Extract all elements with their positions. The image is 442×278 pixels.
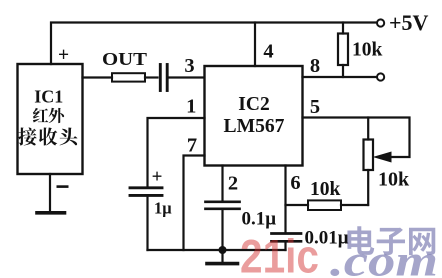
svg-text:4: 4: [263, 41, 273, 63]
wire bottom ground rail: [148, 249, 286, 251]
svg-text:8: 8: [310, 55, 320, 77]
svg-text:IC2: IC2: [238, 94, 269, 115]
svg-text:3: 3: [184, 55, 194, 77]
wire resistor to capacitor: [145, 76, 158, 78]
svg-text:10k: 10k: [378, 169, 410, 191]
wire pin1: [148, 118, 205, 187]
svg-text:0.1μ: 0.1μ: [242, 209, 277, 230]
svg-text:+: +: [152, 167, 163, 188]
wire pin5 to wiper: [303, 118, 410, 158]
wire C2 bottom stub: [221, 210, 223, 250]
potentiometer RP 10k body: [364, 118, 374, 206]
capacitor C1 1u electrolytic plates: [130, 188, 162, 196]
svg-text:10k: 10k: [310, 179, 341, 200]
capacitor C2 0.1u plates: [206, 202, 240, 209]
node junction dot ground: [219, 246, 227, 254]
terminal +5V (open circle): [377, 19, 384, 26]
svg-text:OUT: OUT: [102, 49, 147, 69]
svg-text:IC1: IC1: [34, 87, 63, 107]
wire pin6 stub down: [284, 166, 286, 233]
ground symbol IC1: [37, 211, 65, 215]
wire +5V top rail: [51, 23, 377, 65]
resistor OUT series: [112, 73, 145, 81]
label minus on IC1 bottom: [57, 185, 69, 188]
wire IC1 ground stub: [49, 174, 51, 211]
svg-text:7: 7: [187, 134, 197, 156]
svg-text:21ic: 21ic: [240, 231, 319, 278]
label hongwai (infrared): [33, 108, 64, 123]
svg-text:LM567: LM567: [224, 116, 285, 137]
wire pin7: [184, 156, 205, 251]
svg-text:1: 1: [186, 96, 196, 118]
svg-text:5: 5: [310, 96, 320, 118]
wire C3 bottom stub to ground rail: [284, 243, 286, 251]
wire capacitor to pin3: [169, 76, 205, 78]
IC1 red-infrared receiver box: [18, 64, 83, 174]
svg-text:10k: 10k: [352, 40, 383, 61]
wire pin2 stub: [221, 166, 223, 201]
label jieshoutou (receiver head): [18, 127, 77, 145]
capacitor C3 0.01u plates: [272, 234, 302, 242]
svg-text:+5V: +5V: [389, 10, 429, 35]
svg-text:6: 6: [290, 172, 300, 194]
wire C1 bottom to ground rail: [146, 197, 148, 251]
wire R2 to potentiometer bottom: [341, 204, 368, 206]
svg-text:2: 2: [228, 173, 238, 195]
wire IC1 output to resistor: [83, 76, 113, 78]
watermark dianziwang (electronics net): [347, 226, 435, 255]
resistor R2 10k horizontal: [308, 200, 341, 210]
svg-text:.com: .com: [330, 237, 438, 278]
potentiometer wiper arrow: [375, 152, 392, 162]
svg-text:1μ: 1μ: [154, 199, 172, 218]
svg-text:+: +: [58, 45, 69, 66]
resistor R1 10k (pull-up, vertical): [338, 23, 348, 78]
ground symbol center: [207, 250, 238, 264]
capacitor coupling (plates): [160, 65, 167, 91]
terminal pin8 output (open circle): [377, 73, 384, 80]
wire pin4 drop from rail to IC2: [254, 23, 256, 67]
wire pin6 to resistor R2: [286, 204, 309, 206]
op IC2 LM567 box: [205, 66, 303, 166]
wire pin8 to output terminal: [303, 76, 378, 78]
